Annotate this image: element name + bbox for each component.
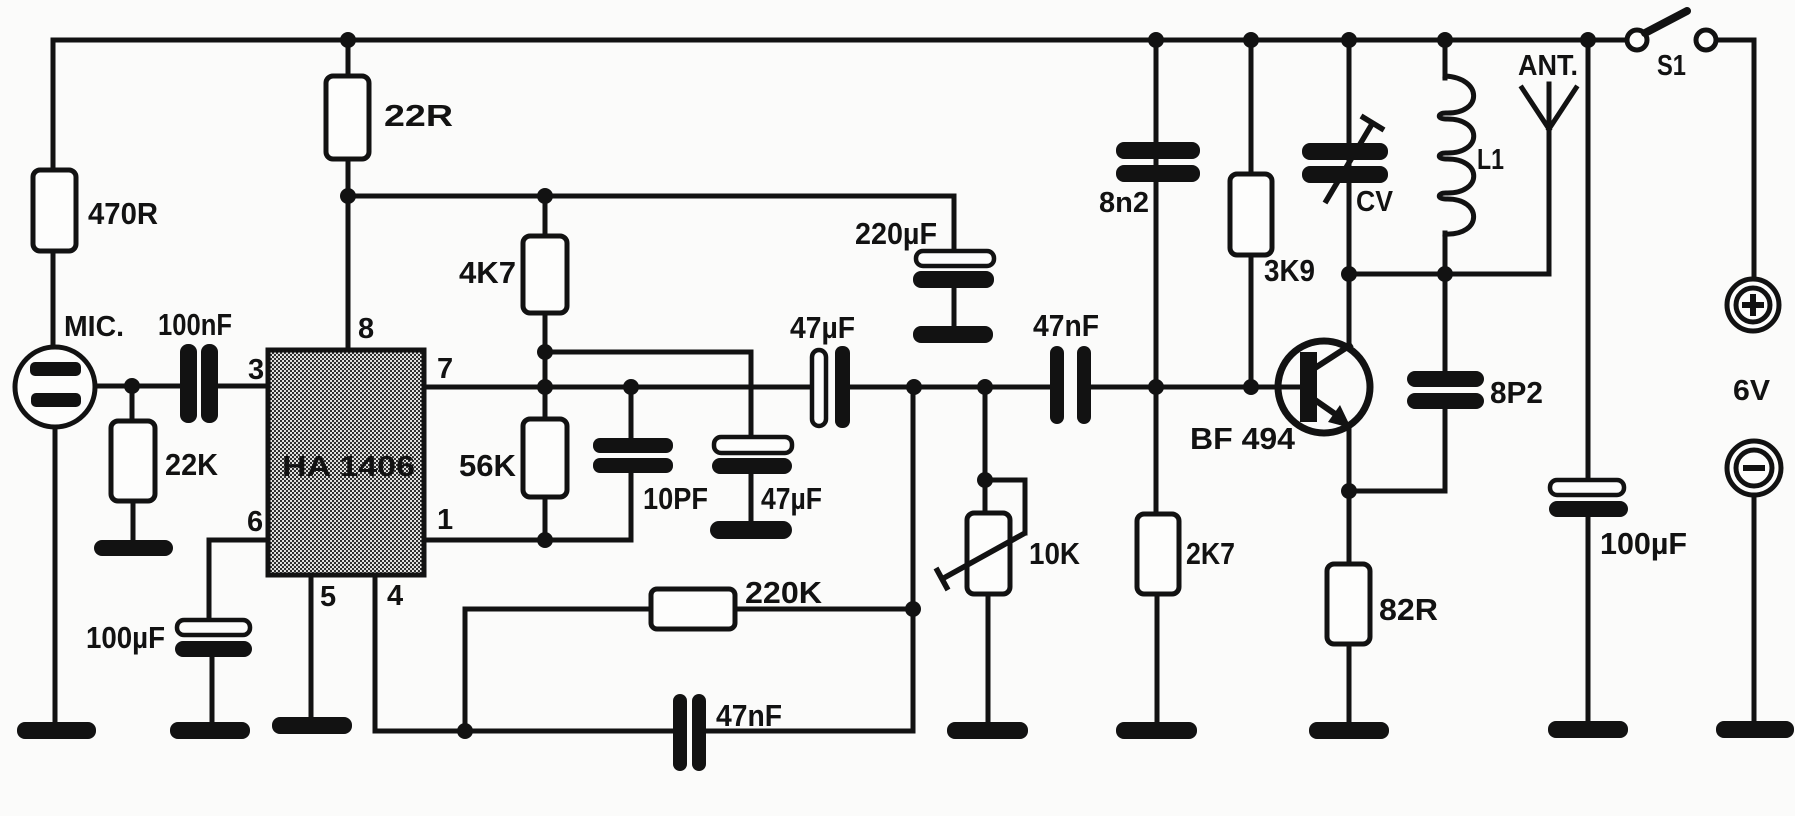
svg-text:100µF: 100µF — [86, 620, 165, 655]
svg-text:BF 494: BF 494 — [1190, 421, 1296, 456]
svg-text:8n2: 8n2 — [1099, 187, 1149, 219]
svg-text:MIC.: MIC. — [64, 311, 124, 343]
svg-text:22R: 22R — [384, 98, 453, 133]
svg-text:56K: 56K — [459, 448, 517, 483]
svg-text:220K: 220K — [745, 575, 823, 610]
svg-text:1: 1 — [437, 504, 453, 536]
svg-text:4: 4 — [387, 580, 403, 612]
svg-text:8P2: 8P2 — [1490, 375, 1543, 410]
svg-text:10K: 10K — [1029, 536, 1081, 571]
svg-text:47µF: 47µF — [761, 481, 822, 516]
svg-text:4K7: 4K7 — [459, 255, 516, 290]
svg-text:22K: 22K — [165, 447, 219, 482]
svg-text:8: 8 — [358, 313, 374, 345]
svg-text:47nF: 47nF — [1033, 308, 1099, 343]
svg-text:ANT.: ANT. — [1518, 50, 1578, 82]
svg-text:6V: 6V — [1733, 375, 1771, 407]
svg-text:L1: L1 — [1477, 144, 1504, 176]
svg-text:47nF: 47nF — [716, 698, 782, 733]
svg-text:2K7: 2K7 — [1186, 536, 1235, 571]
svg-text:10PF: 10PF — [643, 481, 708, 516]
svg-text:100nF: 100nF — [158, 307, 232, 342]
svg-text:HA 1406: HA 1406 — [282, 451, 415, 483]
svg-text:CV: CV — [1356, 186, 1394, 218]
svg-text:82R: 82R — [1379, 592, 1438, 627]
svg-text:220µF: 220µF — [855, 216, 937, 251]
svg-text:5: 5 — [320, 581, 336, 613]
svg-text:6: 6 — [247, 506, 263, 538]
svg-text:3K9: 3K9 — [1264, 253, 1315, 288]
svg-text:S1: S1 — [1657, 50, 1686, 82]
svg-text:47µF: 47µF — [790, 310, 855, 345]
svg-text:3: 3 — [248, 354, 264, 386]
svg-text:100µF: 100µF — [1600, 526, 1687, 561]
svg-text:470R: 470R — [88, 196, 158, 231]
svg-text:7: 7 — [437, 353, 453, 385]
